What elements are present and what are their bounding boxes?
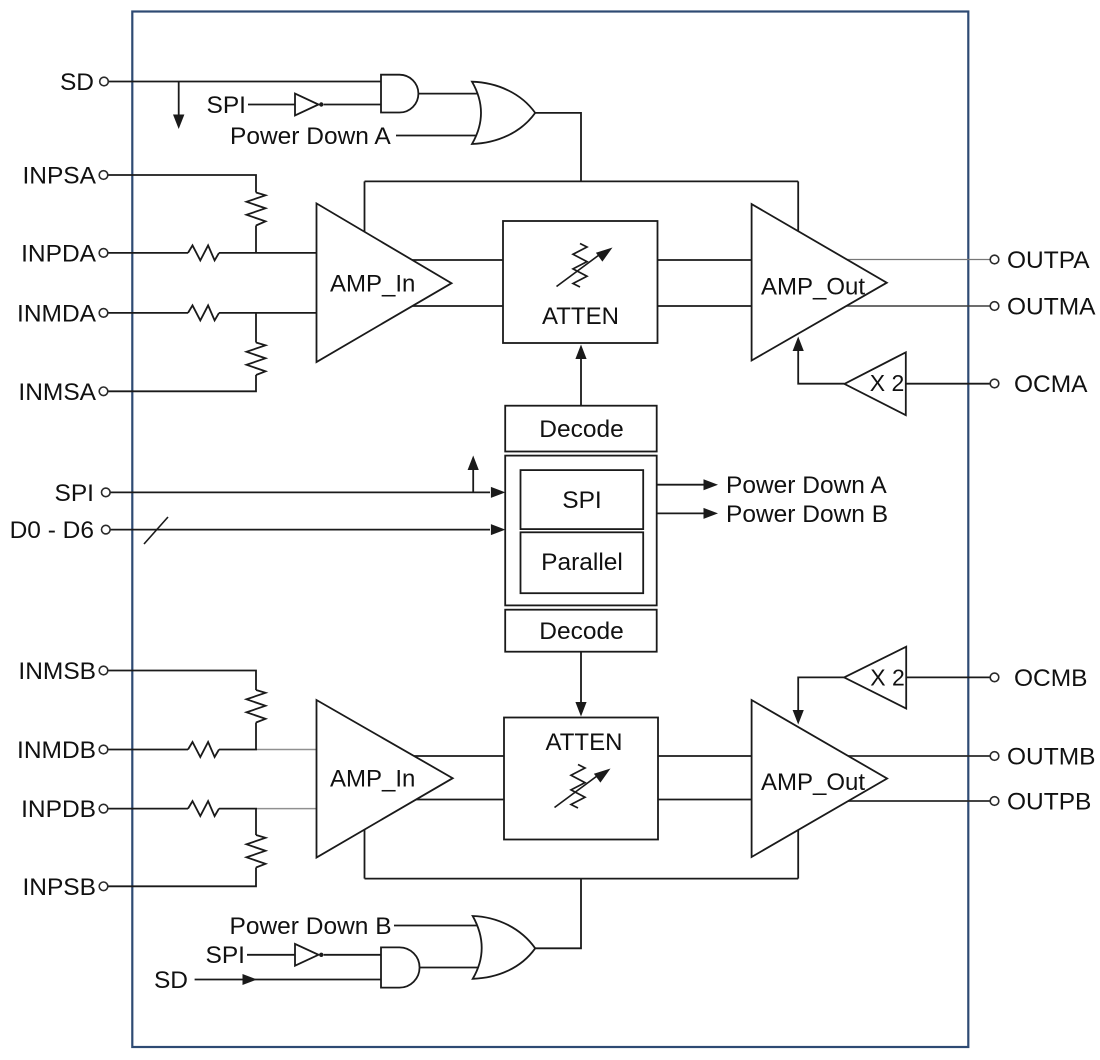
- resistor RB2 horizontal (INMDB): [188, 742, 219, 757]
- terminal INPDB: [99, 804, 108, 813]
- wire ATTEN A to AMP_Out A upper: [658, 259, 754, 261]
- varistor symbol ATTEN B: [555, 765, 598, 809]
- arrowhead X2-B into AMP_Out B: [793, 710, 804, 725]
- wire INPSA resistor lower lead: [255, 226, 257, 253]
- wire SD-B to AND-B: [195, 979, 381, 981]
- wire INPDB grey segment: [257, 808, 317, 810]
- svg-text:SD: SD: [154, 967, 188, 994]
- wire INPDB: [108, 808, 188, 810]
- op-amp AMP_Out B: [752, 700, 888, 857]
- buffer U3A bubble: [319, 102, 323, 106]
- wire OR-B output: [535, 879, 581, 949]
- or-gate U2B: [473, 916, 536, 979]
- wire INMDA after resistor to AMP_In A: [219, 312, 317, 314]
- block ATTEN B: [504, 718, 658, 840]
- svg-text:INPDA: INPDA: [21, 240, 97, 267]
- svg-text:Decode: Decode: [539, 618, 623, 645]
- wire INPSA: [108, 175, 256, 193]
- svg-text:OCMB: OCMB: [1014, 665, 1088, 692]
- resistor RA4 vertical (INMSA): [247, 343, 266, 376]
- wire OUTPB: [840, 800, 990, 802]
- wire INMDB: [108, 749, 188, 751]
- wire INMDB grey segment: [257, 749, 317, 751]
- svg-text:Parallel: Parallel: [541, 549, 623, 576]
- wire OCMA: [906, 383, 990, 385]
- svg-text:INMSB: INMSB: [18, 658, 96, 685]
- amplifier X2-B: [844, 647, 906, 709]
- arrowhead Decode B into ATTEN B: [575, 702, 586, 717]
- or-gate U2A: [472, 82, 535, 144]
- wire SPI up stub: [472, 470, 474, 492]
- svg-text:OUTMA: OUTMA: [1007, 294, 1096, 321]
- wire Decode B down-arrow to ATTEN B: [580, 652, 582, 703]
- wire AMP_In B out lower to ATTEN B: [400, 799, 504, 801]
- terminal INMDA: [99, 309, 108, 318]
- buffer U3A (SPI gate): [295, 94, 319, 116]
- svg-text:SD: SD: [60, 69, 94, 96]
- buffer U3B (SPI gate): [295, 944, 319, 966]
- terminal INPSA: [99, 171, 108, 180]
- svg-text:D0 - D6: D0 - D6: [10, 517, 94, 544]
- svg-text:X 2: X 2: [870, 665, 905, 691]
- terminal D0-D6: [102, 525, 111, 534]
- terminal OCMA: [990, 379, 999, 388]
- op-amp AMP_In B: [317, 700, 453, 858]
- wire Power Down A output: [643, 484, 704, 486]
- arrowhead SPI into control block: [491, 487, 506, 498]
- wire Decode A up-arrow to ATTEN A: [580, 358, 582, 406]
- wire power-down drop to AMP_Out A: [797, 181, 799, 231]
- terminal INMSA: [99, 387, 108, 396]
- arrowhead SD-A down stub: [173, 115, 184, 130]
- wire AMP_In B out upper to ATTEN B: [400, 755, 504, 757]
- arrowhead D0-D6 into control block: [491, 524, 506, 535]
- wire X2-B to AMP_Out B top: [798, 677, 844, 710]
- svg-text:SPI: SPI: [207, 92, 247, 119]
- buffer U3B bubble: [319, 953, 323, 957]
- wire ATTEN B to AMP_Out B lower: [658, 799, 753, 801]
- svg-text:OUTMB: OUTMB: [1007, 744, 1095, 771]
- svg-text:AMP_Out: AMP_Out: [761, 274, 865, 301]
- arrowhead SD-B mid-wire: [243, 974, 258, 985]
- wire feedback rise to AMP_In B: [364, 828, 366, 879]
- wire Power Down A to OR-A: [396, 135, 483, 137]
- wire power-down drop to AMP_In A: [364, 181, 366, 233]
- svg-text:OCMA: OCMA: [1014, 371, 1088, 398]
- block Decode B: [505, 610, 657, 652]
- wire power-down line A horizontal: [365, 180, 799, 182]
- amplifier X2-A: [844, 352, 905, 415]
- arrowhead Power Down A out: [704, 479, 719, 490]
- bus slash D0-D6: [144, 517, 168, 544]
- wire SPI input: [110, 491, 490, 493]
- svg-text:ATTEN: ATTEN: [542, 303, 619, 330]
- svg-text:ATTEN: ATTEN: [546, 729, 623, 756]
- arrowhead X2-A into AMP_Out A: [793, 337, 804, 352]
- svg-text:Power Down A: Power Down A: [230, 123, 391, 150]
- wire feedback line B horizontal: [365, 878, 799, 880]
- svg-text:Power Down B: Power Down B: [726, 501, 888, 528]
- wire X2-A to AMP_Out A bottom: [798, 350, 844, 384]
- svg-text:INPSA: INPSA: [22, 163, 96, 190]
- wire INMSB: [108, 671, 256, 691]
- svg-text:OUTPA: OUTPA: [1007, 247, 1090, 274]
- wire D0-D6 input: [110, 529, 490, 531]
- terminal SPI: [102, 488, 111, 497]
- and-gate U1B: [381, 947, 420, 987]
- terminal INPSB: [99, 882, 108, 891]
- wire OCMB: [906, 676, 990, 678]
- block ATTEN A: [503, 221, 658, 343]
- resistor RB4 vertical (INPSB): [247, 835, 266, 868]
- wire feedback rise to AMP_Out B: [797, 828, 799, 879]
- svg-text:SPI: SPI: [562, 487, 602, 514]
- svg-text:Decode: Decode: [539, 416, 623, 443]
- wire INMDA junction down: [255, 313, 257, 343]
- arrowhead Decode A into ATTEN A: [575, 345, 586, 360]
- terminal OUTMB: [990, 752, 999, 761]
- wire AND-A output to OR-A: [418, 93, 482, 95]
- wire INMSA: [108, 375, 256, 391]
- wire INMSB resistor lower lead: [255, 723, 257, 750]
- svg-text:INMSA: INMSA: [18, 379, 96, 406]
- svg-text:AMP_Out: AMP_Out: [761, 769, 865, 796]
- svg-text:OUTPB: OUTPB: [1007, 789, 1091, 816]
- wire INPSB: [108, 868, 256, 887]
- wire OUTMA: [840, 305, 990, 307]
- wire INMDA: [108, 312, 188, 314]
- wire INPDB after resistor: [219, 808, 257, 810]
- terminal SD-A: [100, 77, 109, 86]
- terminal OUTPB: [990, 797, 999, 806]
- wire INPDA after resistor to AMP_In A: [219, 252, 317, 254]
- wire INMDB after resistor: [219, 749, 257, 751]
- resistor RB1 vertical (INMSB): [247, 690, 266, 723]
- wire Power Down B to OR-B: [394, 925, 483, 927]
- wire SD-A stub down: [178, 82, 180, 117]
- wire ATTEN A to AMP_Out A lower: [658, 305, 754, 307]
- wire SPI-B to buffer: [247, 954, 295, 956]
- and-gate U1A: [381, 75, 418, 113]
- wire buffer to AND gate: [324, 104, 381, 106]
- wire AMP_In A out upper to ATTEN A: [400, 259, 504, 261]
- wire buffer B to AND-B: [324, 954, 381, 956]
- svg-text:Power Down A: Power Down A: [726, 472, 887, 499]
- wire AMP_In A out lower to ATTEN A: [400, 305, 504, 307]
- op-amp AMP_Out A: [752, 204, 887, 360]
- svg-text:INMDB: INMDB: [17, 737, 96, 764]
- terminal OUTPA: [990, 255, 999, 264]
- op-amp AMP_In A: [317, 203, 452, 362]
- resistor RA2 horizontal (INPDA): [188, 245, 219, 260]
- resistor RA3 horizontal (INMDA): [188, 305, 219, 320]
- resistor RB3 horizontal (INPDB): [188, 801, 219, 816]
- block SPI: [521, 470, 644, 529]
- svg-text:SPI: SPI: [55, 480, 95, 507]
- wire SD-A to AND gate: [109, 81, 382, 83]
- arrowhead Power Down B out: [704, 508, 719, 519]
- svg-text:INMDA: INMDA: [17, 300, 97, 327]
- varistor symbol ATTEN A: [557, 244, 600, 288]
- wire AND-B output to OR-B: [418, 967, 483, 969]
- svg-text:AMP_In: AMP_In: [330, 766, 415, 793]
- block Decode A: [505, 406, 657, 452]
- wire Power Down B output: [643, 512, 704, 514]
- resistor RA1 vertical (INPSA): [247, 193, 266, 226]
- block Parallel: [521, 532, 644, 593]
- svg-text:X 2: X 2: [870, 370, 905, 396]
- arrowhead SPI stub up: [468, 456, 479, 471]
- wire SPI-A to buffer: [248, 104, 295, 106]
- svg-text:SPI: SPI: [206, 942, 246, 969]
- terminal OUTMA: [990, 302, 999, 311]
- svg-text:INPSB: INPSB: [22, 874, 96, 901]
- terminal INMDB: [99, 745, 108, 754]
- border frame: [132, 12, 968, 1048]
- terminal INMSB: [99, 666, 108, 675]
- svg-text:Power Down B: Power Down B: [230, 913, 392, 940]
- block control middle: [505, 456, 657, 606]
- wire INPDA: [108, 252, 188, 254]
- wire INPDB junction down: [255, 809, 257, 835]
- wire ATTEN B to AMP_Out B upper: [658, 755, 753, 757]
- wire OUTMB: [840, 755, 990, 757]
- wire OR-A output: [535, 113, 581, 181]
- svg-text:AMP_In: AMP_In: [330, 271, 415, 298]
- terminal OCMB: [990, 673, 999, 682]
- wire OUTPA (grey): [840, 259, 990, 261]
- svg-text:INPDB: INPDB: [21, 796, 96, 823]
- terminal INPDA: [99, 249, 108, 258]
